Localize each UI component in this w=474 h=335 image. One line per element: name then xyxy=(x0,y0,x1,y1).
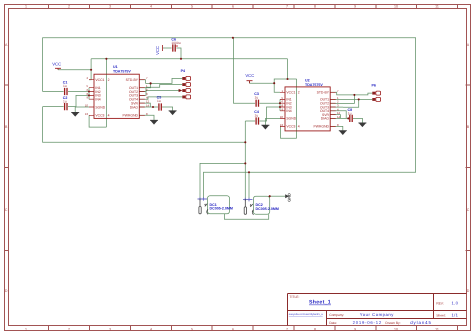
svg-text:2: 2 xyxy=(108,78,110,82)
svg-text:1: 1 xyxy=(25,5,27,9)
svg-text:TDA7575V: TDA7575V xyxy=(113,69,131,73)
svg-text:SGND: SGND xyxy=(286,117,296,121)
svg-text:PWRGND: PWRGND xyxy=(123,114,139,118)
svg-text:6: 6 xyxy=(232,5,234,9)
svg-text:DC005-2.0MM: DC005-2.0MM xyxy=(210,207,233,211)
svg-text:2: 2 xyxy=(68,5,70,9)
svg-text:9: 9 xyxy=(354,327,356,331)
svg-text:2: 2 xyxy=(68,327,70,331)
svg-text:REV:: REV: xyxy=(436,302,444,306)
svg-text:TITLE:: TITLE: xyxy=(290,295,300,299)
svg-text:11: 11 xyxy=(435,5,439,9)
svg-text:P6: P6 xyxy=(372,84,376,88)
svg-text:13: 13 xyxy=(280,123,284,127)
svg-text:VCC3: VCC3 xyxy=(286,125,295,129)
svg-text:VCC: VCC xyxy=(245,73,254,78)
svg-text:14: 14 xyxy=(146,104,150,108)
svg-text:10: 10 xyxy=(85,104,89,108)
svg-text:SGND: SGND xyxy=(95,105,105,109)
svg-text:DIAG: DIAG xyxy=(130,105,139,109)
svg-text:U2: U2 xyxy=(305,79,310,83)
svg-text:7: 7 xyxy=(286,5,288,9)
svg-text:C: C xyxy=(467,208,470,212)
svg-text:Your Company: Your Company xyxy=(360,312,395,317)
svg-text:D: D xyxy=(5,289,8,293)
svg-text:VCC1: VCC1 xyxy=(286,91,295,95)
svg-text:1000u: 1000u xyxy=(171,41,180,45)
svg-text:GND: GND xyxy=(287,193,292,202)
svg-text:7: 7 xyxy=(286,327,288,331)
svg-text:4: 4 xyxy=(150,5,152,9)
svg-text:VCC3: VCC3 xyxy=(95,114,104,118)
svg-text:13: 13 xyxy=(85,112,89,116)
svg-text:easyeda.com/user/dylan45_a: easyeda.com/user/dylan45_a xyxy=(289,313,323,316)
svg-text:IN4: IN4 xyxy=(286,109,291,113)
svg-text:dylan45: dylan45 xyxy=(410,320,432,325)
svg-text:1/1: 1/1 xyxy=(452,312,459,317)
svg-text:P4: P4 xyxy=(181,69,185,73)
svg-text:Date:: Date: xyxy=(329,321,337,325)
svg-text:10: 10 xyxy=(280,115,284,119)
svg-text:IN4: IN4 xyxy=(95,98,100,102)
svg-text:14: 14 xyxy=(337,115,341,119)
svg-text:Sheet:: Sheet: xyxy=(436,313,446,317)
svg-text:5: 5 xyxy=(191,327,193,331)
svg-text:D: D xyxy=(467,289,470,293)
svg-text:3: 3 xyxy=(109,5,111,9)
svg-text:PWRGND: PWRGND xyxy=(314,125,330,129)
svg-text:1u: 1u xyxy=(348,112,352,116)
svg-text:1u: 1u xyxy=(157,99,161,103)
svg-text:U1: U1 xyxy=(113,65,118,69)
svg-text:1.0: 1.0 xyxy=(452,301,459,306)
svg-text:TDA7575V: TDA7575V xyxy=(305,83,323,87)
svg-text:VCC1: VCC1 xyxy=(95,78,104,82)
svg-text:3: 3 xyxy=(109,327,111,331)
svg-text:DC005-2.0MM: DC005-2.0MM xyxy=(256,207,279,211)
svg-text:DIAG: DIAG xyxy=(321,117,330,121)
svg-text:STD-BY: STD-BY xyxy=(317,91,330,95)
svg-text:2: 2 xyxy=(298,91,300,95)
svg-text:Sheet_1: Sheet_1 xyxy=(309,300,331,306)
svg-text:5: 5 xyxy=(191,5,193,9)
svg-text:4: 4 xyxy=(298,125,300,129)
svg-text:4: 4 xyxy=(108,114,110,118)
svg-text:2019-06-12: 2019-06-12 xyxy=(353,320,382,325)
svg-text:10: 10 xyxy=(394,327,398,331)
svg-text:Drawn By:: Drawn By: xyxy=(385,321,400,325)
svg-text:C: C xyxy=(5,208,8,212)
svg-text:1u: 1u xyxy=(63,100,67,104)
svg-text:9: 9 xyxy=(354,5,356,9)
svg-text:VCC: VCC xyxy=(52,62,61,67)
svg-text:1u: 1u xyxy=(255,114,259,118)
svg-text:STD-BY: STD-BY xyxy=(126,78,139,82)
svg-text:VCC: VCC xyxy=(155,46,160,55)
svg-text:Company:: Company: xyxy=(329,313,344,317)
svg-text:1u: 1u xyxy=(63,84,67,88)
svg-text:4: 4 xyxy=(150,327,152,331)
svg-text:10: 10 xyxy=(394,5,398,9)
svg-text:1u: 1u xyxy=(255,96,259,100)
svg-text:6: 6 xyxy=(232,327,234,331)
svg-text:8: 8 xyxy=(314,327,316,331)
svg-text:11: 11 xyxy=(435,327,439,331)
svg-text:1: 1 xyxy=(25,327,27,331)
svg-text:8: 8 xyxy=(314,5,316,9)
